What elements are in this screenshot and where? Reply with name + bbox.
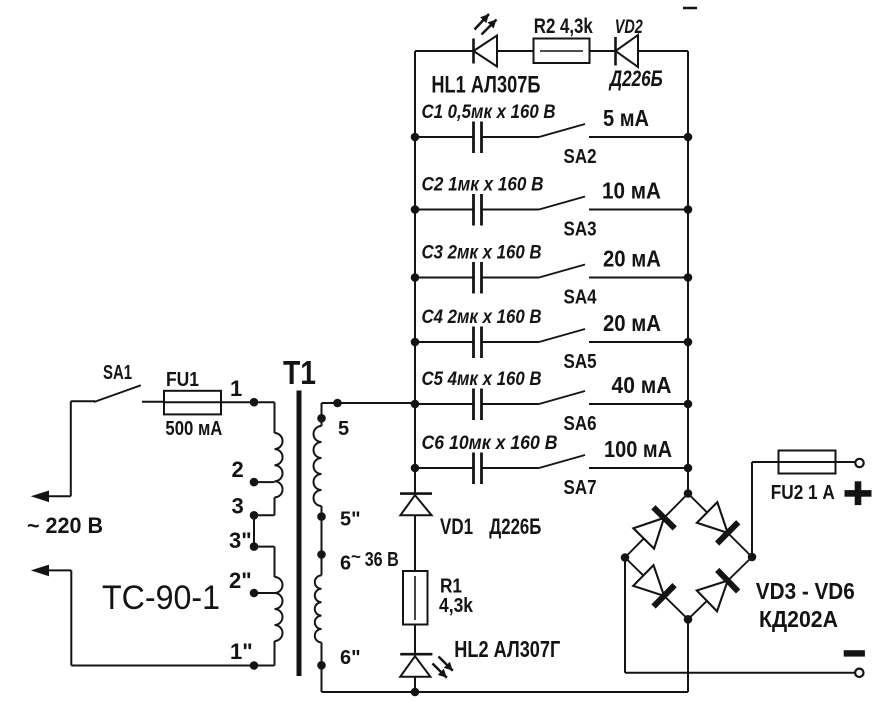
stray mark [683,7,697,10]
plus symbol [845,481,872,505]
transformer secondary winding [314,418,322,692]
label R1 [439,576,474,618]
fuse FU1 [164,391,254,415]
LED HL1 [474,36,498,67]
svg-text:1: 1 [230,376,242,401]
capacitor C4 [474,327,482,359]
svg-text:SA3: SA3 [564,219,597,241]
label current 20 мА [603,310,661,336]
switch SA7 blade [539,455,585,468]
label T1 [283,354,316,391]
label HL1 [431,72,540,99]
pin 5 node [317,414,326,423]
pin 2quote node [250,589,259,598]
secondary corner node [333,399,342,408]
wire pin2 tap [254,481,275,483]
capacitor C3 [474,262,482,294]
wire bridge arm top-right [688,494,752,558]
label SA5 [564,351,597,373]
label FU1 value [165,418,222,440]
label pin 6 [340,547,361,575]
label C1 value [422,102,556,123]
svg-text:~: ~ [351,547,361,566]
label VD3-VD6 [756,578,855,604]
pin 2 node [250,478,259,487]
wire bridge bottom to bus [687,619,689,692]
pin 3quote node [250,542,259,551]
svg-text:10 мА: 10 мА [602,178,661,204]
svg-text:VD2: VD2 [615,17,643,38]
arrow 220V lower [31,565,49,577]
label KD202A [759,606,838,632]
junction node row 5 left [411,400,420,409]
label pin 5quote [340,509,361,531]
HL1 light arrows [475,14,497,35]
svg-text:5": 5" [340,509,361,531]
diode VD4 (bridge upper-right) [697,502,738,543]
label current 100 мА [604,436,672,462]
svg-text:C2 1мк x 160 В: C2 1мк x 160 В [422,175,544,196]
switch SA6 blade [539,391,585,404]
LED HL2 [400,654,432,677]
wire bridge arm left-top [625,494,688,558]
junction node row 1 right [684,133,693,142]
label pin 5 [338,418,349,440]
diode VD2 [616,35,639,67]
svg-text:4,3k: 4,3k [439,595,474,617]
svg-text:SA4: SA4 [564,287,598,309]
label C5 value [422,369,542,390]
switch SA2 blade [539,124,585,137]
svg-text:6: 6 [340,553,351,575]
svg-text:FU2 1 А: FU2 1 А [771,482,835,504]
svg-text:T1: T1 [283,354,316,391]
wire left bus lower vertical [414,515,416,692]
svg-text:40 мА: 40 мА [612,372,672,398]
capacitor C6 [474,453,482,485]
svg-text:SA5: SA5 [564,351,597,373]
bridge bottom node [684,615,693,624]
label pin 2 [232,457,244,482]
junction node row 4 left [411,338,420,347]
label pin 3 [232,494,244,519]
label SA2 [564,146,597,168]
switch SA5 blade [539,329,585,342]
wire minus lead [625,672,855,674]
label 36V [365,549,399,571]
junction node row 2 right [684,205,693,214]
svg-text:C6 10мк x 160 В: C6 10мк x 160 В [422,433,558,454]
wire row C6 left [415,467,539,469]
label TC-90-1 [102,579,220,617]
svg-text:Д226Б: Д226Б [608,66,663,91]
capacitor C1 [474,122,482,154]
switch SA4 blade [539,265,585,278]
svg-text:20 мА: 20 мА [603,246,661,272]
pin 3 node [250,511,259,520]
diode VD6 (bridge lower-right) [697,570,738,611]
svg-text:2": 2" [229,568,252,593]
wire row C4 left [415,341,539,343]
svg-text:100 мА: 100 мА [604,436,672,462]
label SA7 [564,477,597,499]
svg-text:500 мА: 500 мА [165,418,222,440]
pin 1quote node [250,661,259,670]
label current 5 мА [603,105,649,131]
junction node row 4 right [684,338,693,347]
wire row C1 left [415,136,539,138]
junction node row 6 right [684,464,693,473]
diode VD1 [400,494,432,516]
label C3 value [422,243,542,264]
svg-text:Д226Б: Д226Б [489,514,541,539]
diode VD5 (bridge lower-left) [633,565,674,606]
bridge right node [748,553,757,562]
wire left bus vertical [414,51,416,494]
label SA4 [564,287,598,309]
switch SA3 blade [539,197,585,210]
wire row SA3 right [589,209,688,211]
capacitor C5 [474,389,482,421]
svg-text:SA6: SA6 [564,413,597,435]
wire to FU2 [752,461,779,463]
wire row SA6 right [589,403,688,405]
pin 1 node [250,398,259,407]
label current 40 мА [612,372,672,398]
label C4 value [422,307,542,328]
switch SA1 [71,385,141,402]
svg-text:5 мА: 5 мА [603,105,649,131]
svg-text:C3 2мк x 160 В: C3 2мк x 160 В [422,243,542,264]
wire row SA5 right [589,341,688,343]
svg-text:R2 4,3k: R2 4,3k [534,15,593,38]
svg-text:FU1: FU1 [166,369,199,391]
wire SA1 to FU1 [142,401,164,403]
wire secondary top to left bus [322,403,416,418]
junction node row 3 right [684,273,693,282]
svg-text:ТС-90-1: ТС-90-1 [102,579,220,617]
transformer primary winding lower [254,547,283,666]
plus terminal circle [855,459,863,467]
wire right bus vertical [687,51,689,494]
label pin 1 [230,376,242,401]
label C6 value [422,433,558,454]
wire row SA7 right [589,467,688,469]
transformer core [297,391,302,677]
wire pin2quote tap [254,592,275,594]
svg-text:SA1: SA1 [103,362,132,384]
label pin 2quote [229,568,252,593]
svg-text:SA2: SA2 [564,146,597,168]
wire top horizontal [415,50,688,52]
wire bottom bus [322,691,689,693]
label 220V [27,513,103,538]
resistor R1 [403,571,428,625]
bottom junction node [411,688,420,697]
svg-text:C1 0,5мк x 160 В: C1 0,5мк x 160 В [422,102,556,123]
wire row SA2 right [589,136,688,138]
label VD2 [615,17,643,38]
wire row C5 left [415,403,539,405]
label VD1 [440,514,541,539]
resistor R2 [534,39,590,64]
svg-text:C4 2мк x 160 В: C4 2мк x 160 В [422,307,542,328]
arrow 220V upper [31,491,49,503]
svg-text:20 мА: 20 мА [603,310,661,336]
label HL2 [454,636,560,662]
wire upper arrow lead [44,495,71,497]
svg-text:1": 1" [230,639,253,664]
wire lower arrow lead [44,569,71,571]
svg-text:~ 220 В: ~ 220 В [27,513,103,538]
svg-text:HL2 АЛ307Г: HL2 АЛ307Г [454,636,560,662]
label SA3 [564,219,597,241]
bridge left node [621,553,630,562]
wire bottom left to pin 1quote [71,665,254,667]
pin 6quote node [317,661,326,670]
svg-text:3": 3" [229,528,252,553]
wire row C3 left [415,277,539,279]
junction node row 2 left [411,205,420,214]
svg-text:КД202А: КД202А [759,606,838,632]
wire bridge right node up [751,462,753,557]
wire bridge arm left-bottom [625,558,688,620]
minus terminal circle [855,669,863,677]
svg-text:6": 6" [340,647,361,669]
junction node row 6 left [411,464,420,473]
wire bridge arm bottom-right [688,557,752,619]
svg-text:5: 5 [338,418,349,440]
transformer primary winding upper [254,402,283,515]
label current 10 мА [602,178,661,204]
label pin 1quote [230,639,253,664]
pin 5quote node [317,512,326,521]
label SA6 [564,413,597,435]
label SA1 [103,362,132,384]
svg-text:3: 3 [232,494,244,519]
junction node row 5 right [684,400,693,409]
HL2 light arrows [433,657,453,678]
svg-text:C5 4мк x 160 В: C5 4мк x 160 В [422,369,542,390]
wire left input vertical upper [70,401,72,496]
wire left input vertical lower [70,570,72,665]
wire bridge left node down [624,558,626,673]
label pin 6quote [340,647,361,669]
wire row SA4 right [589,277,688,279]
svg-text:VD3 - VD6: VD3 - VD6 [756,578,855,604]
wire pin3 to pin3quote [253,515,255,546]
wire row C2 left [415,209,539,211]
label FU1 [166,369,199,391]
pin 6 node [317,550,326,559]
junction node row 3 left [411,273,420,282]
label VD2 value [608,66,663,91]
svg-text:36 В: 36 В [365,549,399,571]
fuse FU2 [779,451,855,474]
svg-text:SA7: SA7 [564,477,597,499]
svg-text:2: 2 [232,457,244,482]
label FU2 [771,482,835,504]
capacitor C2 [474,194,482,226]
minus symbol [844,650,865,656]
bridge top node [684,489,693,498]
diode VD3 (bridge upper-left) [633,507,674,548]
svg-text:HL1 АЛ307Б: HL1 АЛ307Б [431,72,540,99]
label R2 [534,15,593,38]
junction node row 1 left [411,133,420,142]
label current 20 мА [603,246,661,272]
label C2 value [422,175,544,196]
svg-text:VD1: VD1 [440,514,473,539]
label pin 3quote [229,528,252,553]
